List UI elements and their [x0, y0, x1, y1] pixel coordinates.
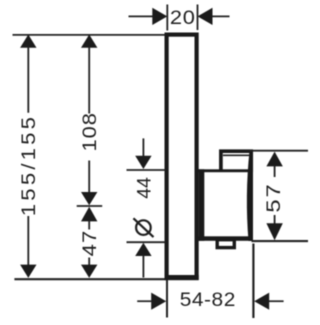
diameter symbol slash: [133, 218, 153, 237]
top reference line: [13, 34, 167, 36]
arrow right-pointing (dim 20 left): [152, 8, 167, 25]
extension line top of dim 57: [250, 150, 309, 152]
dim line 57 upper segment: [274, 165, 276, 177]
svg-text:44: 44: [135, 177, 156, 199]
dim line 57 lower segment: [274, 215, 276, 224]
bottom reference line: [14, 278, 166, 280]
svg-text:155/155: 155/155: [19, 114, 40, 216]
dim line 155/155 lower arrow: [20, 265, 36, 278]
knob body top edge: [199, 169, 253, 172]
svg-text:54-82: 54-82: [180, 290, 236, 311]
dim line 108 upper segment: [88, 47, 90, 114]
extension line left of dim 20: [166, 5, 168, 31]
dim 47 bottom arrow (down): [81, 265, 97, 278]
arrow right-pointing (dim 54-82 left): [151, 293, 166, 310]
extension line bottom of dim 57: [252, 240, 309, 242]
knob top tab: [221, 151, 251, 172]
knob bottom tab: [217, 240, 234, 248]
dim line 108 upper arrow: [81, 35, 97, 48]
diameter symbol circle: [136, 220, 151, 235]
dim 47 top arrow (up): [81, 207, 97, 222]
dim 57 top arrow (up): [266, 152, 282, 167]
leader left of dim 20: [129, 15, 153, 17]
arrow left-pointing (dim 54-82 right): [254, 293, 269, 310]
tick bottom of 44: [127, 241, 166, 243]
leader left of dim 54-82: [137, 300, 151, 302]
faceplate bottom edge: [165, 275, 199, 280]
extension line right of dim 54-82: [252, 244, 254, 319]
svg-text:108: 108: [79, 112, 100, 151]
dim line 47 upper segment: [88, 220, 90, 229]
dim line 155/155 upper segment: [27, 47, 29, 113]
tick at 108/47 junction: [77, 205, 103, 207]
dim 108 bottom arrow (down): [81, 192, 97, 205]
faceplate: [167, 35, 197, 279]
dim 57 bottom arrow (down): [266, 223, 282, 240]
dim line 44 upper free segment: [142, 138, 144, 157]
dim line 108 lower segment: [88, 161, 90, 194]
svg-text:57: 57: [263, 182, 284, 212]
knob seam line: [223, 154, 250, 156]
knob body left edge: [199, 169, 205, 241]
leader right of dim 54-82: [269, 300, 284, 302]
leader right of dim 20: [212, 15, 229, 17]
dim line 44 lower segment: [142, 255, 144, 278]
dim line 47 lower segment: [88, 258, 90, 266]
svg-text:20: 20: [170, 7, 196, 28]
extension line right of dim 20: [197, 5, 199, 31]
svg-text:47: 47: [79, 230, 100, 257]
tick top of 44: [127, 169, 166, 171]
dim line 155/155 lower segment: [27, 216, 29, 266]
knob face curve: [247, 151, 253, 241]
dim line 155/155 upper arrow: [20, 35, 36, 48]
dim 44 bottom arrow (up): [135, 243, 151, 256]
knob body bottom edge: [199, 236, 252, 241]
extension line left of dim 54-82: [166, 280, 168, 318]
arrow left-pointing (dim 20 right): [198, 8, 213, 25]
dim 44 top arrow (down): [135, 156, 151, 169]
